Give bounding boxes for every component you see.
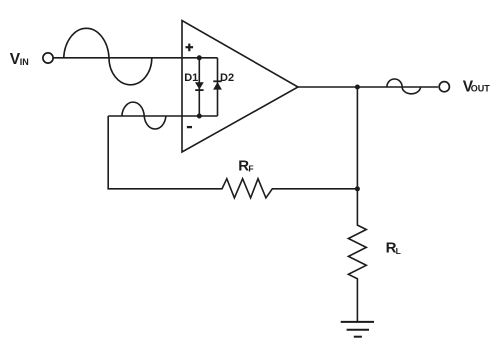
svg-text:D1: D1 xyxy=(184,72,198,84)
svg-text:L: L xyxy=(396,246,401,256)
svg-text:F: F xyxy=(248,164,253,174)
svg-text:D2: D2 xyxy=(220,72,234,84)
svg-text:OUT: OUT xyxy=(471,84,491,94)
svg-text:IN: IN xyxy=(20,57,29,67)
